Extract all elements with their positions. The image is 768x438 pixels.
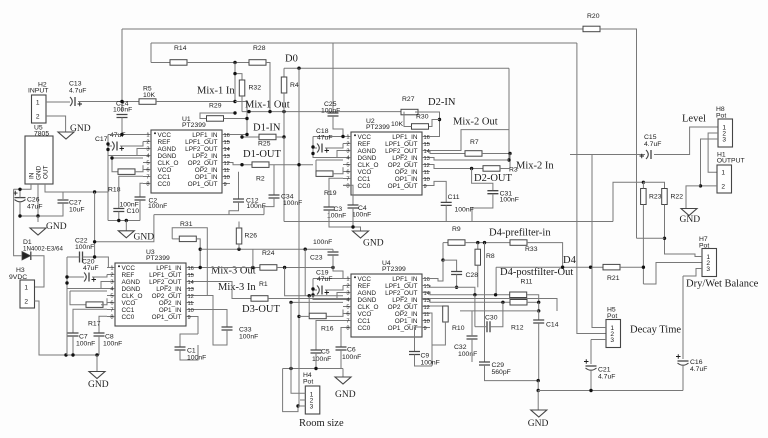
- wire down to mid bus: [283, 137, 285, 222]
- wire pin12 U4: [422, 305, 445, 307]
- wire C24 to VCC: [122, 118, 143, 135]
- resistor R19: [316, 171, 333, 177]
- wire C17 left: [108, 145, 112, 147]
- svg-text:C10: C10: [127, 208, 140, 215]
- svg-text:LPF2_OUT: LPF2_OUT: [385, 148, 417, 155]
- wire pin13 row U4: [422, 299, 510, 302]
- svg-text:GND: GND: [70, 124, 91, 134]
- svg-text:CC1: CC1: [358, 176, 371, 183]
- svg-text:9VDC: 9VDC: [9, 274, 27, 281]
- junction c17b: [106, 148, 109, 151]
- junction C29 drop: [483, 241, 486, 244]
- junction clk h4: [289, 301, 292, 304]
- wire C16 down: [682, 365, 684, 391]
- svg-text:1N4002-E3/64: 1N4002-E3/64: [23, 246, 63, 253]
- svg-text:4: 4: [346, 298, 349, 304]
- svg-text:5: 5: [146, 161, 149, 167]
- svg-text:R29: R29: [209, 103, 222, 110]
- svg-text:100nF: 100nF: [312, 356, 331, 363]
- resistor R10: [443, 306, 449, 322]
- wire U4 gnd rail: [283, 368, 343, 370]
- svg-text:R23: R23: [649, 194, 662, 201]
- svg-text:VCO: VCO: [122, 300, 136, 307]
- ground bottom: [531, 410, 547, 417]
- svg-text:OP2_OUT: OP2_OUT: [388, 162, 418, 169]
- svg-text:4.7uF: 4.7uF: [69, 88, 86, 95]
- svg-text:CLK_O: CLK_O: [358, 304, 379, 311]
- wire C5 down: [315, 353, 317, 369]
- svg-text:C17: C17: [95, 136, 108, 143]
- capacitor C21 4.7uF: [586, 365, 597, 367]
- wire H4 pin2 stub: [300, 399, 305, 401]
- wire R24 right down jog: [285, 268, 291, 296]
- wire C30 right: [490, 302, 503, 326]
- wire bus B to divider: [613, 182, 643, 221]
- wire pin11 U4: [422, 313, 432, 366]
- wire to C21: [590, 340, 592, 365]
- resistor R5 10K: [139, 99, 156, 105]
- resistor R32: [239, 80, 245, 96]
- svg-text:7: 7: [346, 319, 349, 325]
- svg-text:100nF: 100nF: [342, 354, 361, 361]
- svg-text:OP2_IN: OP2_IN: [159, 300, 182, 307]
- junction D1-IN: [240, 135, 243, 138]
- capacitor C26 47uF: [15, 197, 26, 199]
- svg-text:Pot: Pot: [607, 313, 617, 320]
- wire R21 right: [620, 266, 643, 268]
- resistor R20: [583, 26, 600, 32]
- wire pin13 row: [430, 158, 509, 161]
- svg-text:R32: R32: [249, 85, 262, 92]
- svg-text:3: 3: [706, 266, 710, 273]
- svg-text:D1-IN: D1-IN: [253, 123, 281, 134]
- wire R19 to VCO: [333, 167, 343, 174]
- wire Mix-1 In down to pin16: [235, 102, 247, 135]
- svg-text:OP1_IN: OP1_IN: [159, 307, 182, 314]
- wire U4 DGND jog: [337, 293, 343, 300]
- svg-text:15: 15: [188, 273, 194, 279]
- junction r24b: [283, 266, 286, 269]
- junction g2: [125, 219, 128, 222]
- svg-text:CC0: CC0: [158, 181, 171, 188]
- capacitor C25 100nF: [328, 113, 339, 116]
- svg-text:100nF: 100nF: [239, 334, 258, 341]
- wire C15 to H8 pin1: [654, 127, 718, 155]
- wire CLK tap: [112, 157, 143, 159]
- junction R14 R28: [233, 61, 236, 64]
- resistor R24: [260, 265, 277, 271]
- wire R2 right: [269, 164, 313, 166]
- wire R23 bottom long: [642, 205, 644, 285]
- svg-text:1: 1: [146, 133, 149, 139]
- junction R25 out: [282, 135, 285, 138]
- wire to gnd U3: [96, 355, 98, 372]
- junction a: [247, 110, 250, 113]
- wire R20 down: [600, 29, 637, 238]
- svg-text:11: 11: [188, 301, 194, 307]
- wire prefilter to pin16 node: [442, 243, 444, 261]
- svg-text:R8: R8: [486, 253, 495, 260]
- wire caps to gnd rail: [20, 203, 63, 217]
- svg-text:2: 2: [721, 183, 725, 190]
- svg-text:4.7uF: 4.7uF: [644, 141, 661, 148]
- wire R18 to VCO: [135, 165, 143, 172]
- svg-text:6: 6: [110, 301, 113, 307]
- ground near U1: [118, 231, 134, 238]
- wire C3 C4 gnd: [329, 210, 361, 231]
- svg-text:R4: R4: [290, 82, 299, 89]
- svg-text:100nF: 100nF: [75, 244, 94, 251]
- resistor R11: [510, 292, 527, 298]
- wire H7 pin3 to C16: [682, 276, 684, 359]
- svg-text:PT2399: PT2399: [182, 122, 206, 129]
- wire R10 bottom: [432, 322, 445, 345]
- capacitor C29 560pF: [479, 362, 490, 365]
- junction D2-IN: [438, 118, 441, 121]
- svg-text:OP1_IN: OP1_IN: [395, 318, 418, 325]
- svg-text:100nF: 100nF: [321, 108, 340, 115]
- svg-text:OP2_OUT: OP2_OUT: [388, 304, 418, 311]
- wire H5 pin3: [591, 339, 606, 341]
- wire R33 right: [527, 243, 563, 268]
- wire C9 loop: [415, 355, 433, 367]
- svg-text:C11: C11: [448, 194, 460, 201]
- svg-text:OP1_OUT: OP1_OUT: [388, 325, 418, 332]
- svg-text:Dry/Wet Balance: Dry/Wet Balance: [686, 279, 759, 290]
- wire to gnd H1: [686, 186, 701, 209]
- svg-text:D2-OUT: D2-OUT: [474, 173, 512, 184]
- svg-text:1: 1: [346, 135, 349, 141]
- svg-text:VCO: VCO: [358, 311, 372, 318]
- wire R8 bottom: [477, 265, 479, 287]
- svg-text:CC1: CC1: [122, 307, 135, 314]
- resistor R14: [170, 60, 187, 65]
- svg-text:6: 6: [346, 170, 349, 176]
- svg-text:LPF1_IN: LPF1_IN: [392, 134, 418, 141]
- svg-text:LPF1_IN: LPF1_IN: [392, 276, 418, 283]
- svg-text:100nF: 100nF: [313, 239, 332, 246]
- svg-text:R11: R11: [521, 279, 533, 286]
- ground near U4: [335, 377, 351, 384]
- wire DGND jog: [137, 149, 143, 156]
- svg-text:7: 7: [110, 308, 113, 314]
- svg-text:OP2_OUT: OP2_OUT: [152, 293, 182, 300]
- capacitor C23 100nF: [328, 252, 339, 255]
- svg-text:DGND: DGND: [122, 286, 141, 293]
- wire R29 left loop: [200, 113, 235, 119]
- IC U4 PT2399: [343, 274, 430, 337]
- wire R14 to R28: [187, 62, 249, 64]
- svg-text:Mix-1 In: Mix-1 In: [197, 86, 235, 97]
- svg-text:C6: C6: [347, 347, 356, 354]
- wire rail to R14 row: [150, 43, 152, 63]
- junction R8 top: [476, 241, 479, 244]
- ground near H2: [58, 132, 74, 139]
- svg-text:H3: H3: [16, 267, 25, 274]
- svg-text:OUT: OUT: [43, 165, 50, 179]
- junction gnd2: [537, 389, 540, 392]
- junction c18b: [311, 152, 314, 155]
- junction D2-OUT: [470, 167, 473, 170]
- svg-text:47uF: 47uF: [317, 276, 333, 283]
- svg-text:8: 8: [110, 315, 113, 321]
- wire left bus down: [107, 156, 109, 221]
- wire C18 to REF: [325, 144, 343, 149]
- wire R32 bottom: [241, 96, 243, 112]
- svg-text:C1: C1: [187, 348, 196, 355]
- wire C12 bottom: [229, 202, 239, 215]
- svg-text:LPF1_IN: LPF1_IN: [192, 132, 218, 139]
- connector H5 Pot: [606, 320, 621, 348]
- svg-text:LPF1_IN: LPF1_IN: [156, 265, 182, 272]
- wire C34 top: [273, 165, 275, 195]
- wire R4 bottom: [283, 93, 285, 112]
- svg-text:100nF: 100nF: [103, 341, 122, 348]
- svg-text:PT2399: PT2399: [146, 255, 170, 262]
- svg-text:OP1_OUT: OP1_OUT: [152, 314, 182, 321]
- wire C14 top: [538, 311, 540, 320]
- wire bus A: [154, 214, 264, 216]
- junction rail h4: [289, 367, 292, 370]
- svg-text:12: 12: [424, 163, 430, 169]
- wire H7 pin3: [683, 269, 702, 277]
- svg-text:R16: R16: [321, 326, 334, 333]
- wire C14 down: [538, 323, 540, 381]
- wire C1 loop: [180, 345, 198, 360]
- svg-text:47uF: 47uF: [317, 135, 333, 142]
- wire D0 long vertical: [298, 68, 300, 407]
- capacitor C11 100nF: [441, 202, 452, 205]
- svg-text:DGND: DGND: [158, 153, 177, 160]
- wire bus to VCC: [108, 134, 122, 136]
- wire bus A to left: [95, 215, 154, 242]
- svg-text:PT2399: PT2399: [382, 266, 406, 273]
- wire C4 down: [352, 208, 354, 227]
- svg-text:1: 1: [346, 277, 349, 283]
- capacitor C22 100nF: [80, 252, 83, 263]
- wire R24 up tie: [252, 249, 254, 267]
- wire Mix-1 Out row: [242, 111, 401, 113]
- wire R19 left: [315, 160, 317, 174]
- svg-text:REF: REF: [358, 141, 371, 148]
- junction c23 path: [331, 266, 334, 269]
- wire R9 right: [465, 242, 510, 244]
- wire C23 top: [332, 249, 334, 252]
- svg-text:10: 10: [188, 308, 194, 314]
- svg-text:GND: GND: [134, 233, 155, 243]
- svg-text:15: 15: [224, 140, 230, 146]
- svg-text:R1: R1: [259, 281, 268, 288]
- svg-text:R10: R10: [452, 325, 465, 332]
- resistor R2: [252, 162, 269, 168]
- junction Mix-1 In: [233, 100, 236, 103]
- svg-text:OP1_OUT: OP1_OUT: [388, 183, 418, 190]
- svg-text:GND: GND: [335, 390, 356, 400]
- svg-text:4: 4: [346, 156, 349, 162]
- svg-text:4: 4: [110, 287, 113, 293]
- wire C12 top: [238, 172, 240, 199]
- svg-text:D4: D4: [563, 255, 577, 266]
- svg-text:R30: R30: [416, 114, 429, 121]
- wire C18 left: [313, 147, 317, 149]
- capacitor C30: [487, 321, 490, 332]
- svg-text:AGND: AGND: [122, 279, 141, 286]
- svg-text:REF: REF: [122, 272, 135, 279]
- junction rail c5: [314, 367, 317, 370]
- resistor R21: [603, 264, 620, 270]
- resistor R3: [483, 166, 500, 172]
- svg-text:CLK_O: CLK_O: [358, 162, 379, 169]
- wire D1 to H3 pin1: [31, 256, 44, 287]
- wire R31 left: [172, 238, 179, 240]
- wire down to Mix-1 In: [234, 63, 236, 102]
- resistor R25: [259, 134, 276, 140]
- capacitor C4 100nF: [348, 205, 359, 208]
- junction g1: [117, 219, 120, 222]
- svg-text:LPF1_OUT: LPF1_OUT: [385, 283, 417, 290]
- svg-text:LPF1_OUT: LPF1_OUT: [185, 139, 217, 146]
- wire C32 top: [471, 311, 473, 336]
- svg-text:AGND: AGND: [358, 290, 377, 297]
- svg-text:R24: R24: [262, 250, 275, 257]
- IC U2 PT2399: [343, 132, 430, 195]
- wire D4 row: [496, 266, 603, 268]
- wire R17 left: [70, 291, 86, 305]
- wire second rail: [151, 42, 577, 44]
- svg-text:100nF: 100nF: [113, 107, 132, 114]
- wire R18 left: [112, 158, 118, 172]
- junction b: [268, 110, 271, 113]
- wire H2 pin1 to C13: [46, 101, 70, 103]
- svg-text:LPF2_IN: LPF2_IN: [156, 286, 182, 293]
- svg-text:CC0: CC0: [358, 183, 371, 190]
- capacitor C6 100nF: [336, 347, 347, 350]
- svg-text:R21: R21: [607, 275, 620, 282]
- svg-text:16: 16: [424, 135, 430, 141]
- wire C28 bottom: [456, 275, 458, 288]
- svg-text:D4-prefilter-in: D4-prefilter-in: [489, 228, 551, 239]
- svg-text:14: 14: [188, 280, 194, 286]
- svg-text:R12: R12: [511, 325, 524, 332]
- diode D1 1N4002-E3/64: [22, 252, 31, 261]
- wire U1 gnd rail: [108, 220, 140, 222]
- svg-text:4.7uF: 4.7uF: [598, 374, 615, 381]
- junction c19b: [311, 293, 314, 296]
- wire pin14 to R7: [430, 151, 465, 154]
- wire pin12 to R2: [230, 163, 252, 165]
- wire C33 loop: [213, 308, 227, 345]
- svg-text:D1-OUT: D1-OUT: [243, 149, 281, 160]
- wire R1 right long: [268, 299, 557, 312]
- wire pin9 down: [194, 317, 198, 335]
- svg-text:11: 11: [224, 168, 230, 174]
- wire R3 right: [500, 168, 510, 170]
- junction divider top: [642, 181, 645, 184]
- junction R29 out: [245, 117, 248, 120]
- wire pin12 to R3: [430, 165, 483, 169]
- capacitor C13 4.7uF: [70, 97, 72, 106]
- svg-text:100nF: 100nF: [500, 197, 519, 204]
- wire C31 bottom: [472, 194, 493, 222]
- junction D1-OUT: [240, 163, 243, 166]
- svg-text:VCO: VCO: [158, 167, 172, 174]
- svg-text:R33: R33: [525, 246, 538, 253]
- svg-text:4: 4: [146, 154, 149, 160]
- wire H8 pin3 down: [701, 139, 719, 186]
- junction Mix-2 In: [507, 158, 510, 161]
- svg-text:3: 3: [110, 280, 113, 286]
- junction R31 out: [199, 248, 202, 251]
- svg-text:R14: R14: [174, 45, 187, 52]
- svg-text:3: 3: [610, 337, 614, 344]
- wire R31 right down: [196, 239, 200, 268]
- svg-text:C26: C26: [27, 197, 40, 204]
- resistor R30: [412, 124, 429, 130]
- junction 5V drop: [93, 190, 96, 193]
- svg-text:VCO: VCO: [358, 169, 372, 176]
- svg-text:CC1: CC1: [158, 174, 171, 181]
- svg-text:7: 7: [146, 175, 149, 181]
- svg-text:LPF2_OUT: LPF2_OUT: [385, 290, 417, 297]
- svg-text:2: 2: [346, 284, 349, 290]
- wire bus down U3: [66, 289, 68, 356]
- wire jog pin16 to R25: [242, 135, 259, 138]
- svg-text:C23: C23: [310, 255, 323, 262]
- connector H3 9VDC: [20, 280, 35, 308]
- wire bus y311: [460, 310, 539, 312]
- capacitor C2 100nF: [135, 197, 146, 200]
- connector H8 Pot: [718, 119, 733, 147]
- wire C29 bottom: [485, 365, 539, 381]
- junction u2 vcc: [341, 135, 344, 138]
- wire U2 DGND jog: [337, 151, 343, 158]
- svg-text:2: 2: [24, 298, 28, 305]
- wire D4 row down to pin14: [495, 267, 497, 295]
- junction g4: [71, 353, 74, 356]
- svg-text:C15: C15: [644, 134, 657, 141]
- svg-text:13: 13: [224, 154, 230, 160]
- svg-text:10: 10: [424, 319, 430, 325]
- svg-text:D0: D0: [285, 54, 298, 65]
- wire C19 to REF: [325, 286, 343, 291]
- junction D0: [297, 67, 300, 70]
- svg-text:100nF: 100nF: [327, 213, 346, 220]
- connector H1 OUTPUT: [717, 165, 732, 193]
- wire C7 down: [72, 336, 74, 355]
- capacitor C28 100nF: [451, 272, 462, 275]
- svg-text:5: 5: [346, 305, 349, 311]
- svg-text:OP2_IN: OP2_IN: [395, 169, 418, 176]
- connector H4 Pot: [305, 386, 320, 414]
- svg-text:9: 9: [224, 182, 227, 188]
- svg-text:R7: R7: [470, 139, 479, 146]
- wire U4 VCC: [313, 278, 343, 280]
- junction h4 pin3: [296, 404, 299, 407]
- svg-text:INPUT: INPUT: [28, 88, 48, 95]
- svg-text:C28: C28: [466, 272, 479, 279]
- junction VCC U1: [120, 133, 123, 136]
- wire U2 VCC: [313, 136, 343, 138]
- svg-text:10K: 10K: [391, 121, 404, 128]
- svg-text:3: 3: [346, 291, 349, 297]
- wire U2 CC1 down: [329, 178, 343, 207]
- svg-text:OP2_OUT: OP2_OUT: [188, 160, 218, 167]
- wire C20 left: [67, 276, 84, 278]
- wire D0 down right: [508, 68, 510, 160]
- resistor R31: [179, 236, 196, 242]
- capacitor C15 4.7uF: [646, 150, 648, 159]
- wire mix3 feed row: [200, 248, 333, 250]
